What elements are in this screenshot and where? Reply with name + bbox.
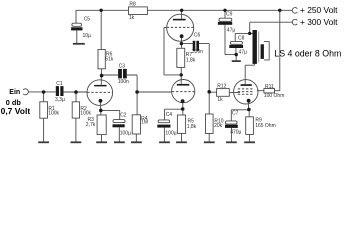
svg-text:165 Ohm: 165 Ohm (255, 123, 276, 129)
svg-text:2,7k: 2,7k (86, 122, 96, 128)
svg-text:330n: 330n (192, 49, 203, 55)
svg-text:C7: C7 (232, 110, 239, 116)
svg-text:3,3µ: 3,3µ (55, 97, 65, 103)
svg-text:C3: C3 (119, 64, 126, 70)
svg-text:+ 300 Volt: + 300 Volt (300, 17, 338, 27)
svg-text:C6: C6 (194, 33, 201, 39)
svg-text:LS 4 oder 8 Ohm: LS 4 oder 8 Ohm (274, 48, 341, 58)
svg-text:1,8k: 1,8k (186, 58, 196, 64)
svg-text:100 Ohm: 100 Ohm (264, 93, 285, 99)
svg-text:47µ: 47µ (227, 28, 236, 34)
svg-text:Ein: Ein (9, 89, 20, 96)
svg-text:C4: C4 (166, 112, 173, 118)
svg-text:47µ: 47µ (239, 49, 248, 55)
svg-text:100n: 100n (118, 79, 129, 85)
svg-text:100k: 100k (80, 111, 91, 117)
svg-text:100µ: 100µ (120, 130, 131, 136)
svg-text:20k: 20k (214, 123, 223, 129)
svg-text:R11: R11 (265, 84, 274, 90)
svg-text:C8: C8 (238, 36, 245, 42)
svg-text:C2: C2 (120, 112, 127, 118)
svg-text:R8: R8 (129, 2, 136, 8)
svg-text:100µ: 100µ (165, 131, 176, 137)
svg-text:1,8k: 1,8k (187, 124, 197, 130)
svg-text:1k: 1k (217, 97, 223, 103)
svg-text:10µ: 10µ (83, 33, 92, 39)
svg-text:0,7 Volt: 0,7 Volt (1, 106, 31, 116)
svg-text:1M: 1M (141, 119, 148, 125)
svg-text:C9: C9 (226, 11, 233, 17)
svg-text:C5: C5 (84, 17, 91, 23)
svg-text:+ 250 Volt: + 250 Volt (300, 5, 338, 15)
svg-text:1k: 1k (129, 15, 135, 21)
svg-text:100k: 100k (48, 111, 59, 117)
svg-text:470µ: 470µ (230, 130, 241, 136)
svg-text:R12: R12 (217, 83, 226, 89)
svg-text:51k: 51k (105, 57, 114, 63)
svg-text:C1: C1 (56, 81, 63, 87)
